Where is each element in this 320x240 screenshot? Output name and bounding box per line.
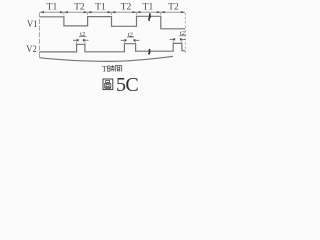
svg-text:T2: T2 — [121, 1, 132, 12]
caption glyph 圖 — [103, 79, 113, 90]
boundary tick 112 — [111, 13, 113, 17]
svg-text:V1: V1 — [27, 19, 38, 30]
svg-text:T1: T1 — [95, 1, 106, 12]
arrowheads boundary 161 — [157, 11, 165, 13]
svg-text:T: T — [102, 63, 108, 73]
svg-text:5C: 5C — [116, 74, 138, 96]
arrowheads boundary 64 — [60, 11, 68, 13]
break mark on V2 low segment — [149, 49, 150, 54]
arrowheads boundary 88 — [84, 11, 92, 13]
waveform V2 — [40, 43, 186, 52]
svg-text:t2: t2 — [80, 31, 85, 38]
boundary tick 64 — [63, 13, 65, 17]
boundary dashed line 185 (right end) — [184, 13, 186, 55]
svg-text:T2: T2 — [168, 1, 179, 12]
t2 dimension cluster 1 — [73, 31, 89, 44]
arrowhead left end — [40, 11, 44, 13]
y-axis / left boundary dashed vertical x=39.4 — [38, 13, 40, 58]
svg-text:T2: T2 — [74, 1, 85, 12]
time axis line (slightly warped scan) — [39, 56, 173, 61]
dimension arrow line y=12.2 — [40, 11, 185, 13]
waveform V1 — [40, 16, 185, 29]
arrowheads boundary 136 — [133, 11, 141, 13]
t2 dimension cluster 2 — [121, 31, 139, 43]
svg-text:V2: V2 — [26, 44, 37, 55]
axis label glyph 間 — [115, 65, 121, 71]
svg-text:T1: T1 — [47, 1, 58, 12]
boundary tick 161 — [160, 13, 162, 16]
break mark on V1 high segment — [149, 13, 151, 20]
svg-text:T1: T1 — [143, 1, 154, 12]
t2 dimension cluster 3 — [170, 30, 186, 43]
axis label glyph 時 — [108, 65, 115, 71]
arrowhead right end — [181, 11, 185, 13]
boundary tick 88 — [87, 13, 89, 17]
svg-text:t2: t2 — [180, 30, 185, 37]
arrowheads boundary 112 — [108, 11, 116, 13]
boundary tick 136 — [136, 13, 138, 17]
